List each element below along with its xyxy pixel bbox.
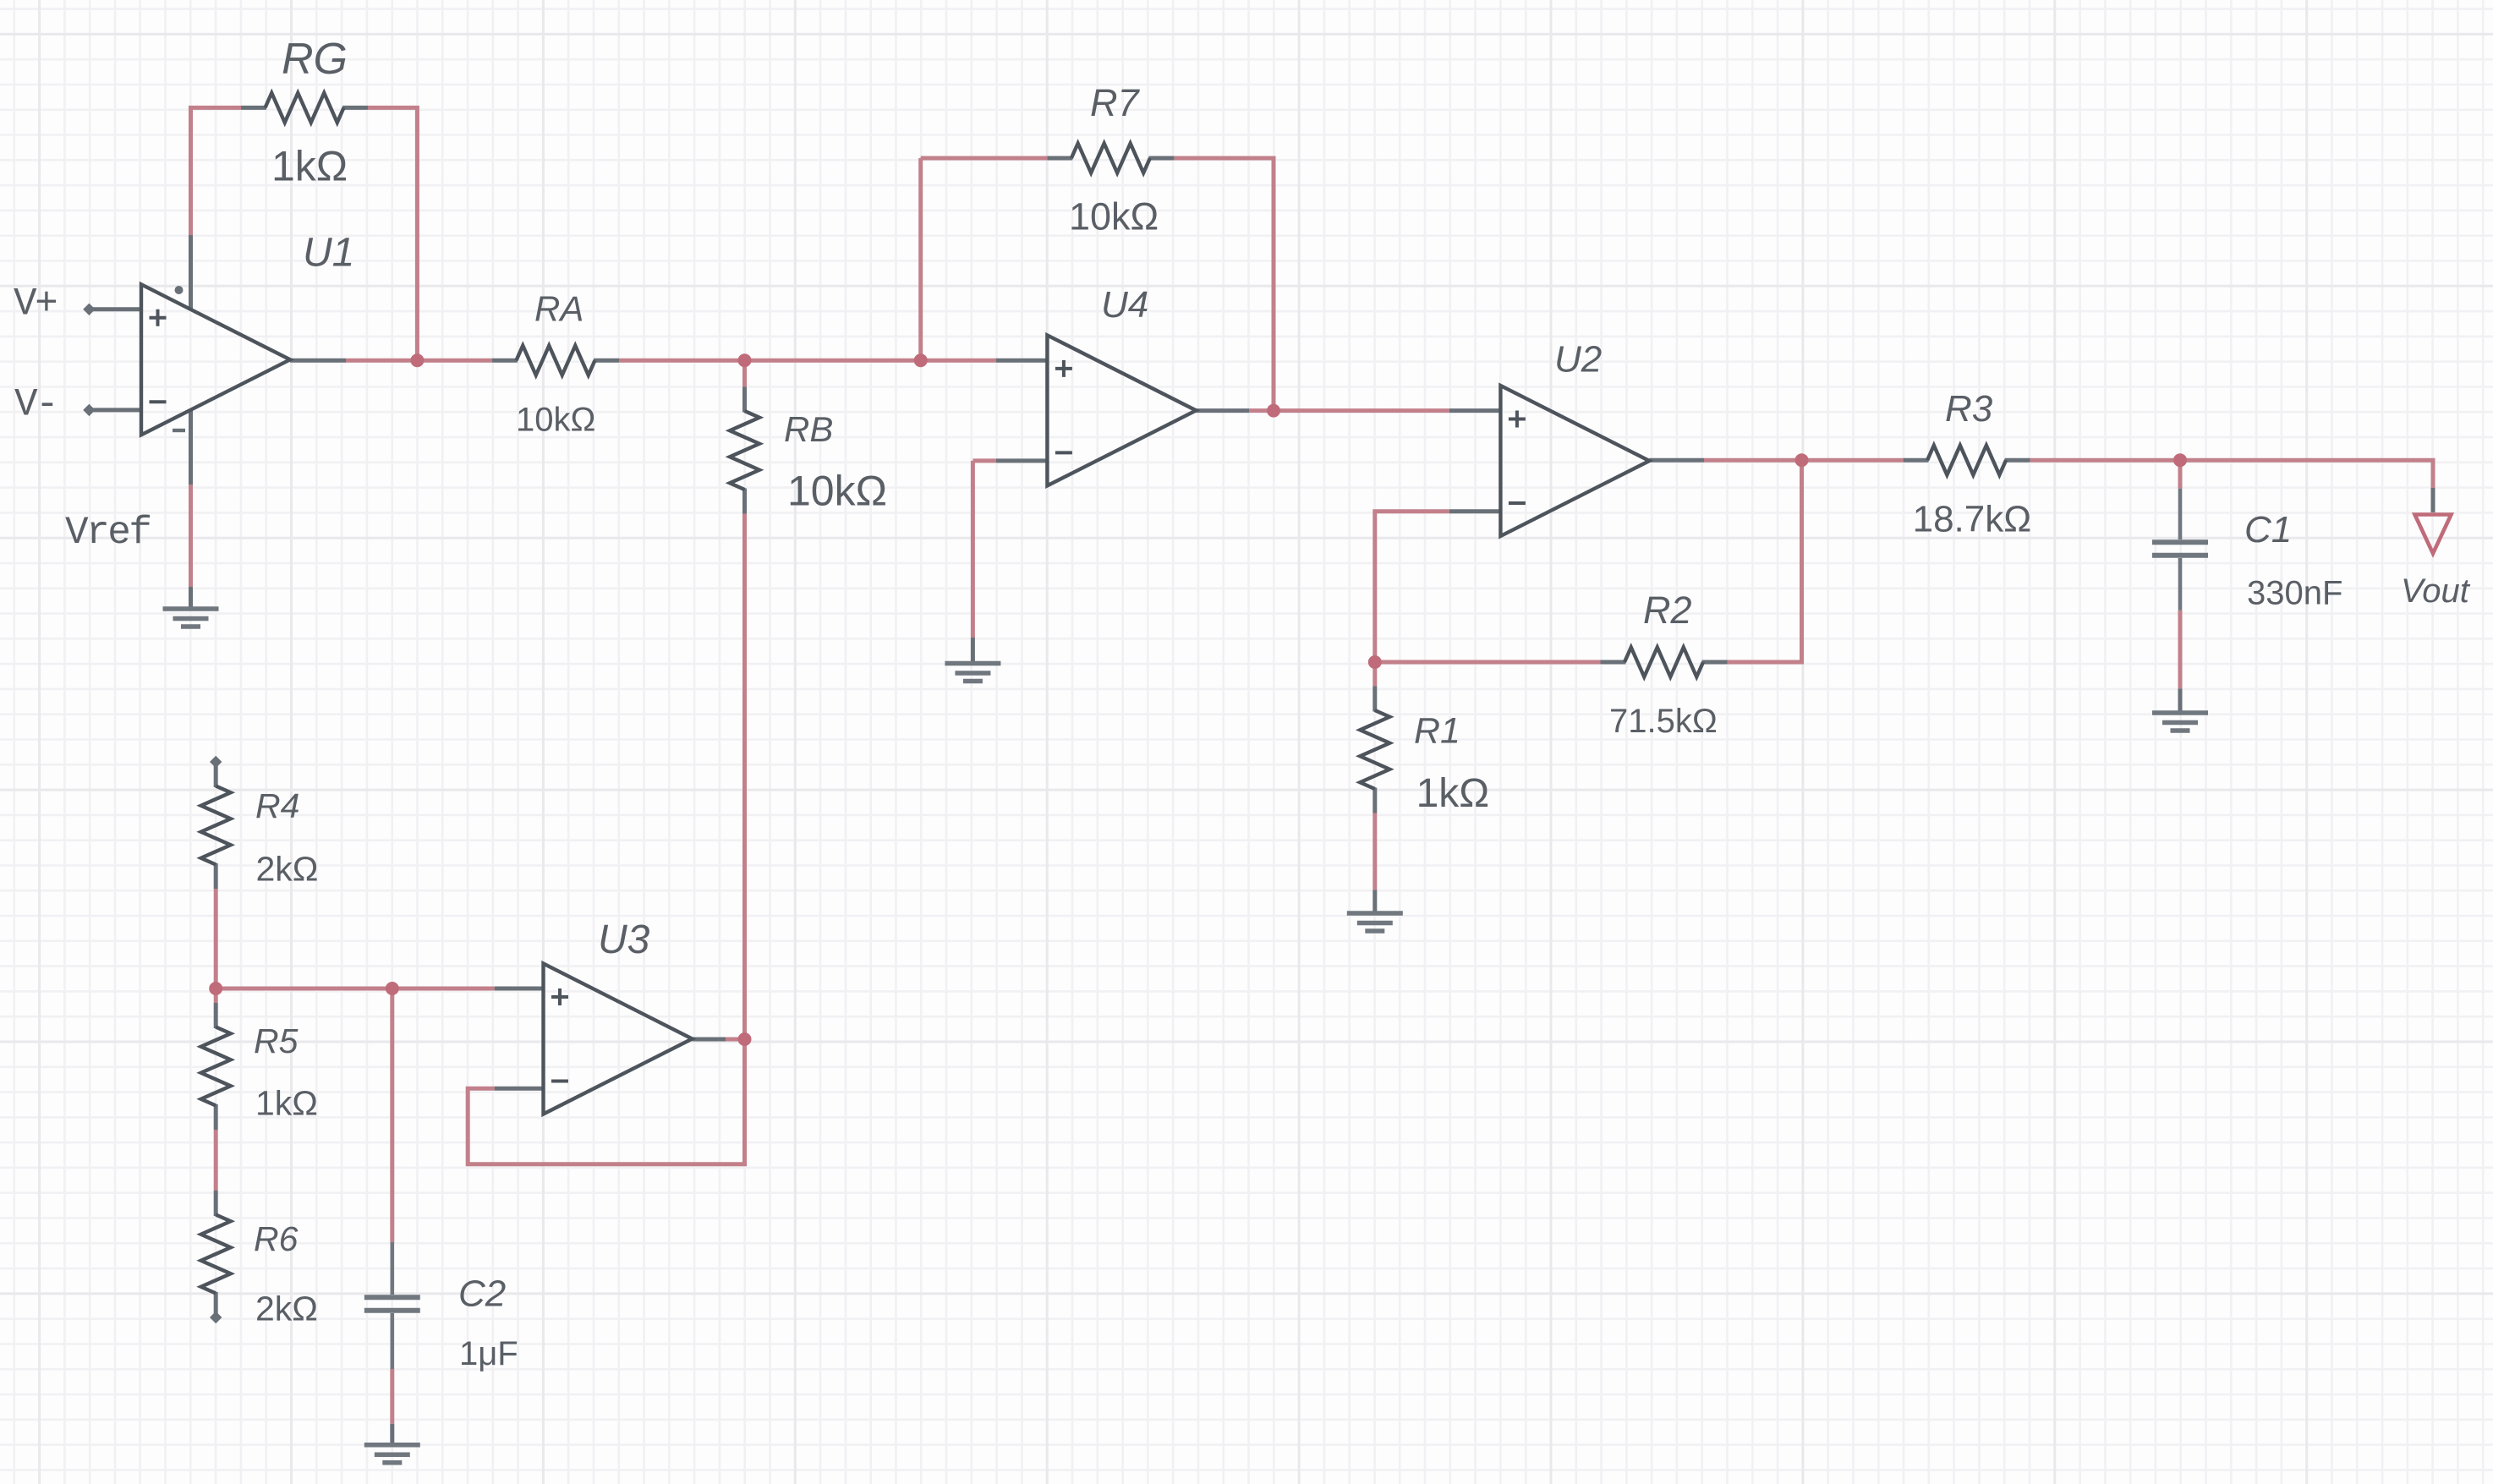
svg-text:V-: V- — [14, 383, 57, 427]
svg-text:10kΩ: 10kΩ — [787, 468, 887, 515]
svg-text:R7: R7 — [1090, 81, 1140, 124]
svg-text:U2: U2 — [1554, 339, 1602, 381]
svg-text:RB: RB — [784, 409, 833, 449]
svg-text:R5: R5 — [254, 1021, 299, 1060]
svg-text:2kΩ: 2kΩ — [255, 1290, 318, 1328]
svg-text:R3: R3 — [1945, 388, 1993, 430]
svg-text:C1: C1 — [2244, 509, 2292, 550]
svg-text:R1: R1 — [1414, 711, 1460, 752]
svg-text:1kΩ: 1kΩ — [271, 143, 348, 190]
svg-text:U3: U3 — [598, 917, 650, 962]
svg-text:RA: RA — [534, 289, 584, 329]
svg-text:R2: R2 — [1643, 589, 1692, 632]
svg-text:RG: RG — [282, 35, 348, 84]
svg-text:R4: R4 — [255, 786, 299, 825]
svg-text:2kΩ: 2kΩ — [256, 850, 319, 889]
svg-text:10kΩ: 10kΩ — [1069, 195, 1159, 238]
svg-text:Vout: Vout — [2401, 572, 2471, 610]
svg-text:10kΩ: 10kΩ — [516, 402, 595, 439]
svg-text:C2: C2 — [458, 1273, 506, 1315]
svg-text:71.5kΩ: 71.5kΩ — [1609, 703, 1718, 740]
svg-text:1kΩ: 1kΩ — [255, 1084, 318, 1123]
svg-text:U4: U4 — [1101, 284, 1148, 326]
svg-text:V+: V+ — [14, 282, 56, 326]
svg-text:1kΩ: 1kΩ — [1416, 771, 1490, 816]
svg-text:1μF: 1μF — [459, 1335, 518, 1372]
svg-text:330nF: 330nF — [2247, 575, 2342, 612]
svg-text:R6: R6 — [254, 1219, 299, 1258]
svg-text:18.7kΩ: 18.7kΩ — [1913, 499, 2032, 540]
svg-text:U1: U1 — [303, 231, 354, 276]
svg-text:Vref: Vref — [65, 511, 150, 555]
